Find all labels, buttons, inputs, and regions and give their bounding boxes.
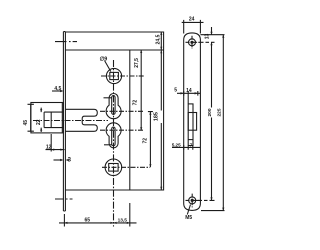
bottom screw hole S2 [189,197,196,204]
dimension 225 line [222,35,224,211]
cylinder profile P1 (lobe up) [106,94,121,119]
dimension 5.25/7 ticks [184,145,193,150]
right ext line top edge [200,34,224,36]
right ext line bottom edge [201,210,225,212]
dimension 5/14 ticks [184,91,198,104]
cylinder profile P1 inner slot [112,96,115,115]
dimension 12 arrows [51,149,63,151]
svg-text:3: 3 [68,158,72,164]
dimension 4.5 arrow [60,90,63,92]
follower F2 circle [105,159,122,176]
top screw hole S1 [189,39,196,46]
bottom screw hole S2 center dot [191,199,194,202]
dimension 13 upper arrowhead [210,32,212,35]
dimension 24 end ticks [184,20,201,25]
faceplate side view (double line) [63,32,65,211]
deadbolt fork prongs [65,109,97,131]
bottom dimension arrows [64,222,129,224]
dimension 5/14 arrowheads [181,92,198,94]
front view faceplate outline [184,33,201,211]
top screw hole S1 crosshair [186,36,200,49]
cylinder profile P1 centerline [100,110,144,112]
dimension 22 arrowheads [40,109,42,131]
svg-text:27,5: 27,5 [134,58,140,68]
cylinder profile P2 (lobe down) [106,123,121,148]
follower F1 horizontal centerline [101,75,143,77]
svg-text:13,5: 13,5 [118,217,128,223]
dimension 3 arrow [60,159,69,161]
deadbolt centerline [33,120,108,122]
cylinder profile P2 inner slot [112,127,115,146]
bottom screw centerline dash [55,198,73,200]
dimension 24 ext lines [184,25,201,34]
cylinder profile P2 lobe centerline tick [104,144,112,146]
svg-text:225: 225 [217,108,223,116]
dimension 24 line [182,21,204,23]
label D9 leader [105,61,111,72]
svg-text:65: 65 [85,217,91,223]
bottom screw hole S2 crosshair [186,194,200,208]
svg-text:14: 14 [186,88,192,94]
dimension 45 line [28,104,34,131]
cylinder profile P1 lobe centerline tick [104,97,112,99]
lock case outline [65,32,163,190]
case inner vertical line [129,50,131,190]
right ext line bottom screw [197,199,215,201]
latch cutout tick [188,139,193,141]
svg-text:72: 72 [132,100,138,106]
follower F2 horizontal centerline [102,166,150,168]
svg-text:22: 22 [36,119,42,125]
chain dimension 24.5/185 arrows [160,32,162,190]
svg-text:∅9: ∅9 [100,56,108,62]
svg-text:5: 5 [174,87,177,93]
dimension 12 line [46,149,65,151]
dimension 3 leader [54,159,63,161]
case inner top line [65,49,163,51]
svg-text:M5: M5 [185,215,192,221]
M5 leader line [187,205,190,215]
svg-text:24: 24 [189,16,195,22]
svg-text:200: 200 [207,108,213,116]
bottom dimension extension inner [129,203,131,227]
svg-text:12: 12 [46,144,52,150]
svg-text:13: 13 [205,34,211,40]
deadbolt face line 1 [50,112,52,128]
deadbolt face line 2 [61,103,63,133]
extension line for 12 [50,134,52,152]
chain dimension line 24.5 / 185 [160,32,162,190]
svg-text:24,5: 24,5 [155,34,161,44]
svg-text:7: 7 [190,143,193,149]
bottom dimension line 65 / 13.5 [59,222,137,224]
latch cutout wide part [188,113,196,131]
dimension 13 upper arrow line [211,27,213,35]
follower F1 square 9mm [110,72,119,79]
dimension 200 arrows [210,42,212,200]
svg-text:4,5: 4,5 [54,86,61,92]
right ext line top screw [199,41,215,43]
chain dimension line 27.5 / 72 [140,50,142,130]
follower F2 square [109,164,118,172]
dimension 5 and 14 line [177,92,201,94]
deadbolt head outer rectangle [31,103,64,133]
cylinder profile P2 centerline [100,129,143,131]
bottom dimension extension plate [63,214,65,227]
top screw hole S1 center dot [190,41,193,44]
latch cutout slot [188,104,193,146]
svg-text:45: 45 [23,120,29,126]
svg-text:5,25: 5,25 [172,142,181,147]
follower F1 circle [106,68,121,83]
dimension 4.5 leader [52,90,62,92]
svg-text:72: 72 [143,138,149,144]
dimension 200 line [211,42,213,200]
top screw centerline dash [55,41,77,43]
dimension 5.25 and 7 line [172,146,200,148]
deadbolt body rectangle [44,112,63,128]
chain dimension tick at follower [139,75,144,77]
svg-text:185: 185 [154,112,160,121]
main vertical centerline [113,60,115,227]
dimension 72 lower line [148,112,153,168]
chain dimension 27.5/72 arrows [140,50,142,130]
dimension 225 arrows [222,35,224,211]
dimension 72 lower arrows [149,112,151,168]
dimension 22 arrow lines [40,108,42,132]
